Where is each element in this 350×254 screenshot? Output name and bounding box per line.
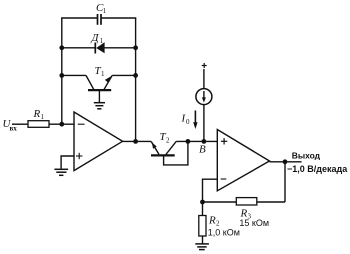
wire: T1 row left (collector lead)	[62, 74, 86, 76]
wire: current source to node B	[203, 105, 205, 142]
op-amp U2	[217, 130, 269, 191]
pin: U2 non-inverting plus	[221, 138, 227, 144]
label B	[199, 144, 206, 156]
node: output junction dot	[283, 159, 288, 164]
label 15 kOm	[239, 218, 269, 228]
capacitor C1	[98, 14, 102, 25]
wire: R1 to op-amp	[49, 123, 75, 125]
wire: T2 collector to op-amp U2	[176, 140, 218, 142]
label T1	[95, 65, 106, 78]
wire: top row right of C1	[102, 17, 137, 19]
wire: U2 output	[270, 161, 302, 163]
label 1,0 kOm	[208, 227, 240, 237]
diode D1	[95, 42, 104, 53]
node: junction dot collector/base	[186, 139, 191, 144]
wire: U2 inverting input to feedback node	[203, 179, 218, 202]
svg-text:0: 0	[186, 118, 190, 126]
wire: supply to current source	[203, 69, 205, 89]
node: junction dot T1-left	[59, 73, 64, 78]
svg-text:−1,0 В/декада: −1,0 В/декада	[287, 164, 348, 174]
label R1	[33, 108, 45, 121]
ground (U1 + input)	[54, 169, 68, 175]
transistor T2	[151, 141, 188, 165]
label D1	[91, 32, 104, 45]
svg-text:B: B	[199, 144, 206, 156]
current source I0	[196, 89, 212, 105]
resistor R2	[199, 216, 206, 237]
node B junction dot	[202, 139, 207, 144]
label R3	[240, 208, 252, 221]
label I0	[181, 113, 191, 127]
wire: U1 output to T2 emitter	[123, 140, 152, 142]
wire: diode row left	[62, 47, 95, 49]
svg-text:R: R	[208, 215, 216, 227]
ground (R2)	[195, 244, 209, 250]
resistor R3	[236, 198, 256, 205]
transistor T1	[86, 75, 112, 102]
label -1,0 V/dekada	[287, 164, 348, 174]
wire: right feedback vertical	[135, 18, 137, 141]
pin: U1 non-inverting plus	[76, 153, 82, 159]
wire: output feedback vertical	[284, 162, 286, 202]
wire: feedback bottom left segment	[203, 201, 237, 203]
wire: top row left of C1	[61, 17, 97, 19]
node: junction dot U1 output / right feedback	[133, 139, 138, 144]
arrow: I0 direction	[193, 111, 197, 130]
wire: left feedback vertical	[61, 18, 63, 124]
label R2	[208, 215, 220, 228]
svg-text:2: 2	[216, 220, 220, 228]
svg-text:вх: вх	[10, 125, 18, 133]
svg-text:1: 1	[41, 113, 45, 121]
node: junction dot R2/feedback	[200, 200, 205, 205]
label Vyhod (output)	[292, 151, 321, 161]
wire: diode row right	[105, 47, 136, 49]
wire: R2 to ground	[202, 236, 204, 244]
ground (T1 base)	[94, 103, 105, 109]
label Uvx (input)	[3, 118, 18, 133]
svg-text:1: 1	[101, 70, 105, 78]
node: junction dot input/feedback	[59, 122, 64, 127]
svg-text:1,0 кОм: 1,0 кОм	[208, 227, 240, 237]
svg-text:15 кОм: 15 кОм	[239, 218, 269, 228]
label + (current source supply)	[202, 63, 207, 68]
label C1	[96, 2, 107, 15]
svg-text:1: 1	[103, 7, 107, 15]
svg-text:2: 2	[166, 137, 170, 145]
wire: node to R2	[202, 202, 204, 216]
wire: input to R1	[12, 123, 28, 125]
svg-text:1: 1	[100, 37, 104, 45]
wire: T1 row right (emitter lead)	[112, 74, 135, 76]
svg-text:R: R	[33, 108, 41, 120]
node: junction dot diode-right	[133, 45, 138, 50]
wire: feedback bottom right segment	[257, 201, 285, 203]
svg-text:Д: Д	[91, 32, 100, 44]
label T2	[160, 131, 171, 145]
wire: U1 + input to ground	[61, 156, 75, 169]
op-amp U1	[74, 112, 123, 171]
node: junction dot diode-left	[59, 45, 64, 50]
svg-text:Выход: Выход	[292, 151, 321, 161]
node: junction dot T1-right	[133, 73, 138, 78]
resistor R1	[28, 121, 49, 128]
pin: U2 inverting dash	[221, 178, 227, 180]
pin: U1 inverting dash	[78, 123, 85, 125]
